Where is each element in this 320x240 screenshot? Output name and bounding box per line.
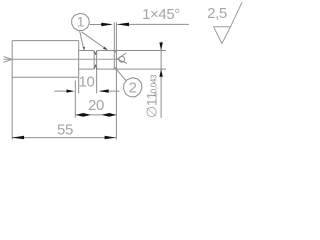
dimension 20 line — [76, 114, 117, 116]
svg-text:55: 55 — [57, 122, 73, 139]
wire left edge + extension line for 55 — [11, 41, 13, 140]
leader balloon 1 to step chamfer — [80, 31, 84, 49]
dimension 1x45 line right part with left arrow — [121, 23, 189, 25]
centerline open arrow — [4, 57, 13, 63]
leader balloon 1 to end chamfer — [82, 32, 107, 49]
svg-text:1: 1 — [77, 14, 85, 30]
arrowhead of end chamfer leader — [103, 47, 108, 51]
wire step edge + extension line for 10 — [78, 41, 80, 94]
leader from balloon 1 to chamfer dimension — [90, 24, 111, 26]
groove left edge — [93, 51, 95, 70]
dimension 55 left arrow — [12, 136, 24, 139]
center hole symbol circle — [119, 56, 125, 62]
end face + extension lines up and down — [115, 22, 117, 139]
roughness symbol triangle with leg — [214, 2, 242, 43]
label dia 11 -0,043 rotated — [143, 74, 159, 118]
balloon U2 circle — [124, 78, 142, 97]
svg-text:1×45°: 1×45° — [142, 6, 180, 23]
diameter down arrow — [159, 43, 162, 51]
dimension 20 left diamond arrows — [76, 113, 91, 117]
svg-text:20: 20 — [88, 97, 104, 114]
svg-text:∅11-0,043: ∅11-0,043 — [143, 74, 159, 118]
svg-text:2,5: 2,5 — [207, 5, 227, 22]
shaft small cylinder bottom line + diameter extension — [79, 68, 166, 70]
chamfer slant bottom — [114, 67, 116, 69]
dimension 10 right-pointing arrow — [67, 90, 75, 93]
leader balloon 2 to end face corner — [116, 69, 126, 80]
dimension 1x45 line left part with right arrow — [101, 23, 111, 25]
dimension 10 left-pointing arrow — [99, 89, 109, 92]
svg-text:2: 2 — [129, 79, 137, 96]
centerline — [4, 58, 120, 60]
groove V notch top — [94, 51, 97, 55]
dimension 55 right arrow — [105, 136, 116, 139]
groove right edge + extension line for 10 — [96, 51, 98, 94]
diameter dimension line vertical — [160, 42, 162, 119]
dimension 20 right diamond arrows — [102, 113, 117, 117]
dimension 55 line — [12, 137, 116, 139]
arrowhead of step chamfer leader — [83, 47, 85, 51]
chamfer edge vertical + extension line up — [113, 22, 115, 69]
dimension 10 line — [54, 90, 119, 92]
center hole symbol open arrow — [117, 53, 127, 63]
shaft small cylinder top line + diameter extension — [79, 50, 166, 52]
shaft big cylinder outline — [12, 41, 79, 78]
extension line for 20 left — [74, 81, 76, 118]
chamfer slant top — [114, 51, 116, 53]
groove V notch bottom — [94, 65, 97, 69]
diameter up arrow — [159, 69, 162, 77]
balloon U1 circle — [72, 13, 90, 30]
svg-text:10: 10 — [79, 74, 95, 91]
